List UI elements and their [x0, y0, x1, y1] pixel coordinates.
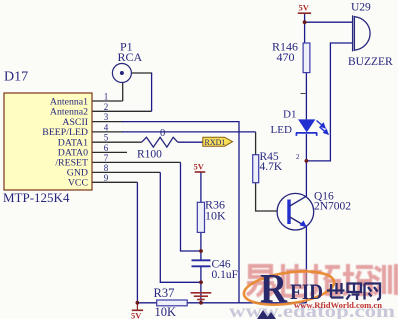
svg-text:4: 4: [104, 122, 109, 132]
svg-text:LED: LED: [271, 124, 292, 136]
svg-text:9: 9: [104, 173, 109, 183]
svg-text:R100: R100: [137, 149, 162, 161]
svg-text:R37: R37: [154, 286, 175, 300]
svg-text:0: 0: [160, 128, 165, 139]
svg-text:8: 8: [104, 163, 109, 173]
svg-text:4.7K: 4.7K: [260, 161, 283, 173]
svg-text:R: R: [260, 265, 287, 311]
svg-text:2: 2: [104, 102, 109, 112]
svg-text:10K: 10K: [205, 209, 226, 223]
svg-text:www.RfidWorld.com.cn: www.RfidWorld.com.cn: [294, 300, 382, 310]
svg-text:D1: D1: [283, 109, 296, 121]
svg-text:470: 470: [277, 50, 295, 64]
svg-text:5V: 5V: [131, 311, 142, 319]
svg-text:5V: 5V: [194, 162, 205, 172]
svg-text:0.1uF: 0.1uF: [212, 269, 239, 281]
svg-text:2N7002: 2N7002: [314, 201, 351, 213]
svg-text:5: 5: [104, 133, 109, 143]
svg-text:BUZZER: BUZZER: [348, 56, 393, 68]
svg-text:5V: 5V: [299, 3, 310, 13]
svg-text:MTP-125K4: MTP-125K4: [3, 190, 70, 205]
svg-text:1: 1: [104, 92, 109, 102]
svg-text:RXD1: RXD1: [205, 138, 226, 147]
svg-text:6: 6: [104, 143, 109, 153]
svg-text:2: 2: [296, 153, 300, 161]
svg-text:10K: 10K: [155, 305, 177, 319]
svg-text:VCC: VCC: [68, 178, 88, 189]
svg-text:RCA: RCA: [118, 50, 143, 64]
svg-text:U29: U29: [351, 2, 371, 14]
svg-text:3: 3: [104, 112, 109, 122]
svg-text:D17: D17: [4, 70, 28, 85]
svg-text:7: 7: [104, 153, 109, 163]
